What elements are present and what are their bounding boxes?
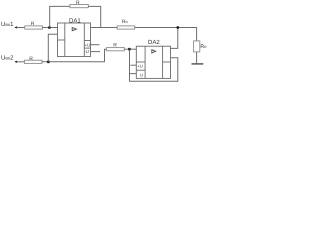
wire -U stub DA2 bbox=[130, 73, 137, 75]
wire R3 to DA2 input bbox=[124, 48, 137, 50]
resistor R feedback bbox=[70, 5, 88, 8]
ground bbox=[192, 63, 204, 65]
wire R2 to riser bbox=[42, 61, 105, 63]
op-amp DA2 bbox=[136, 46, 170, 78]
node A junction dot bbox=[48, 26, 51, 29]
svg-text:-U: -U bbox=[85, 49, 89, 54]
wire Ro to load corner bbox=[135, 28, 197, 41]
svg-text:R: R bbox=[76, 0, 80, 6]
node D junction dot bbox=[176, 26, 179, 29]
wire DA2 feedback loop bbox=[130, 49, 178, 81]
wire DA1 output main line bbox=[91, 27, 118, 29]
svg-text:R: R bbox=[31, 21, 35, 27]
resistor R3 bbox=[107, 48, 125, 51]
wire R1 to DA1 inverting input bbox=[43, 27, 58, 29]
svg-text:Uвх2: Uвх2 bbox=[1, 55, 14, 62]
wire +U stub DA2 bbox=[130, 64, 136, 66]
svg-text:+U: +U bbox=[85, 42, 90, 47]
wire feedback to output node bbox=[88, 6, 100, 27]
amplifier sign DA1 bbox=[72, 28, 76, 31]
svg-text:R: R bbox=[29, 56, 33, 62]
wire DA2 output bbox=[171, 28, 178, 49]
resistor Rn load bbox=[194, 41, 200, 52]
wire noninverting riser DA1 bbox=[48, 34, 58, 62]
node B junction dot bbox=[47, 60, 50, 63]
amplifier sign DA2 bbox=[152, 50, 156, 53]
svg-text:Uвх1: Uвх1 bbox=[1, 21, 14, 28]
svg-text:U: U bbox=[140, 72, 143, 77]
svg-text:DA2: DA2 bbox=[148, 39, 160, 46]
svg-text:R: R bbox=[113, 42, 117, 48]
svg-text:DA1: DA1 bbox=[69, 18, 81, 25]
resistor Ro bbox=[117, 26, 135, 29]
svg-text:+U: +U bbox=[137, 63, 142, 68]
resistor R1 bbox=[25, 26, 43, 29]
resistor R2 bbox=[24, 60, 42, 63]
input arrow Uvx2 bbox=[14, 61, 24, 63]
input arrow Uvx1 bbox=[14, 26, 24, 28]
op-amp DA1 bbox=[58, 23, 91, 57]
wire -U stub DA1 bbox=[91, 51, 101, 53]
node C junction dot bbox=[128, 48, 131, 51]
wire feedback riser bbox=[50, 6, 70, 27]
wire +U stub DA1 bbox=[91, 44, 100, 46]
wire Rn to ground bbox=[196, 52, 198, 64]
wire riser to R3 bbox=[105, 49, 107, 62]
